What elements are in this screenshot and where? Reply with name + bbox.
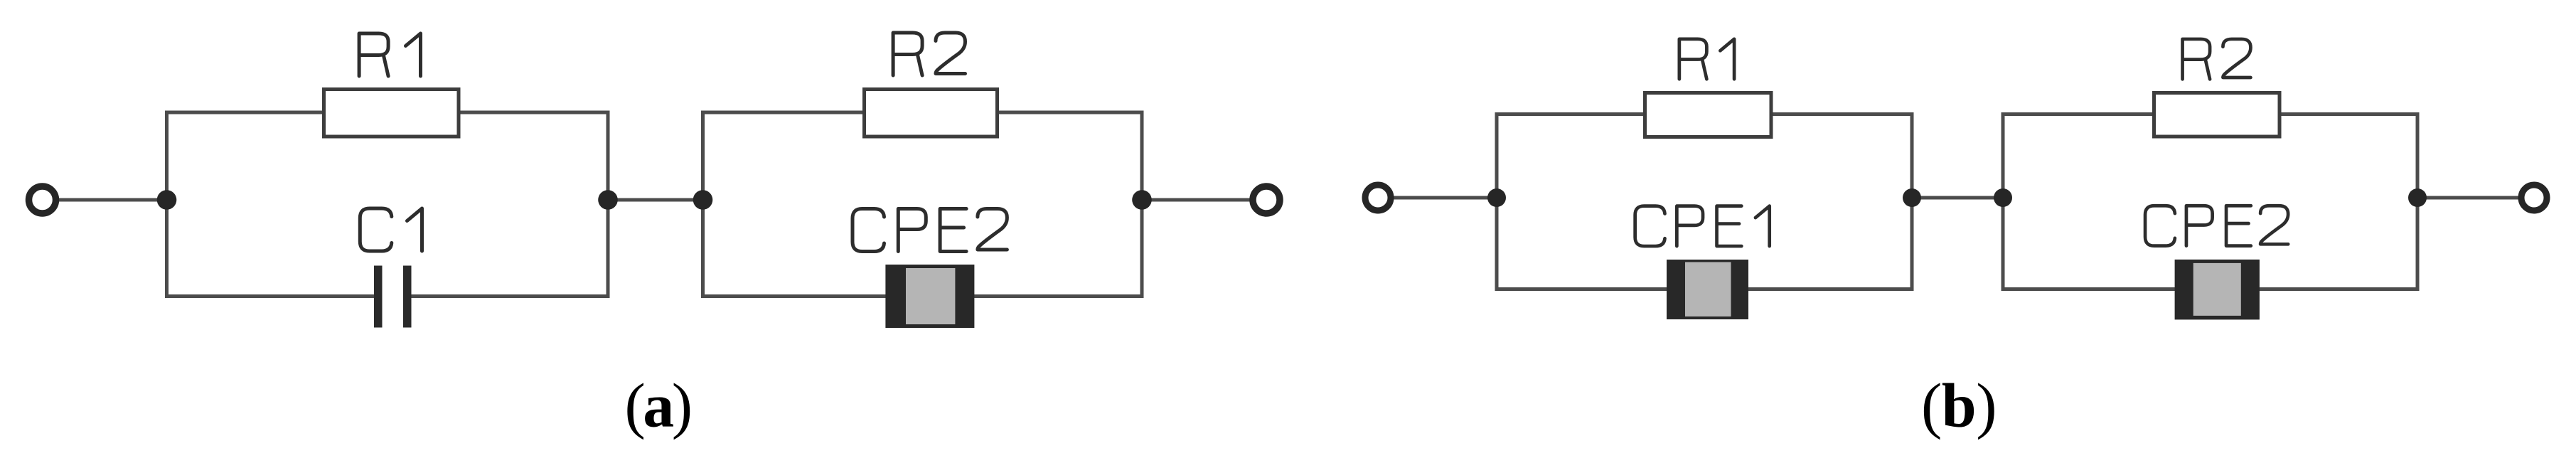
- wire: right lead b: [2417, 196, 2518, 200]
- wire: left lead b: [1394, 196, 1497, 200]
- label C1: [360, 208, 422, 251]
- node a4: [1132, 190, 1152, 210]
- node b4: [2408, 188, 2427, 207]
- CPE2 (b): [2175, 260, 2260, 320]
- terminal right b: [2521, 185, 2547, 211]
- node a1: [157, 190, 177, 210]
- node a3: [693, 190, 713, 210]
- resistor R2 (a): [865, 90, 998, 137]
- node a2: [598, 190, 618, 210]
- resistor R1 (b): [1645, 93, 1772, 137]
- label R2 (a): [893, 33, 965, 75]
- wire: left lead a: [58, 198, 167, 202]
- svg-text:(b): (b): [1921, 372, 1997, 441]
- terminal left b: [1365, 185, 1391, 211]
- wire: right lead a: [1142, 198, 1250, 202]
- wire: link b: [1912, 196, 2003, 200]
- resistor R2 (b): [2154, 93, 2280, 137]
- svg-text:(a): (a): [624, 372, 690, 441]
- CPE2 (a): [885, 265, 974, 328]
- label R2 (b): [2183, 39, 2251, 79]
- terminal right a: [1253, 186, 1280, 213]
- node b2: [1903, 188, 1921, 207]
- wire: loop2 b outline: [2003, 115, 2417, 289]
- capacitor C1: [374, 266, 412, 328]
- label R1 (b): [1679, 39, 1734, 79]
- node b3: [1994, 188, 2012, 207]
- label CPE2 (a): [853, 209, 1007, 252]
- label CPE2 (b): [2145, 206, 2288, 245]
- wire: loop2 a outline: [703, 112, 1143, 297]
- label CPE1 (b): [1635, 206, 1770, 246]
- label R1 (a): [359, 33, 420, 76]
- wire: loop1 b outline: [1497, 115, 1912, 289]
- resistor R1 (a): [324, 90, 459, 137]
- node b1: [1487, 188, 1506, 207]
- CPE1 (b): [1667, 260, 1748, 319]
- terminal left a: [29, 186, 56, 213]
- wire: link a: [608, 198, 703, 202]
- wire: loop1 a outline: [167, 112, 609, 297]
